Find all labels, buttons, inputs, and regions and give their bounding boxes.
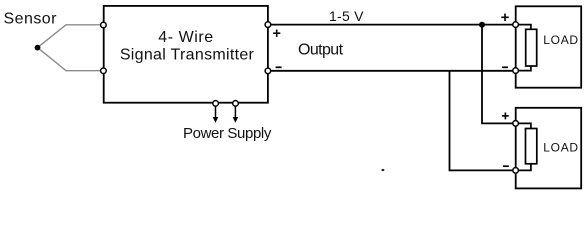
load 2 box (516, 108, 582, 189)
terminal load1 minus (513, 68, 519, 74)
wire minus branch to load 2 (450, 71, 513, 171)
junction dot on plus bus (479, 22, 485, 28)
terminal load1 plus (513, 22, 519, 28)
wire plus branch to load 2 (482, 25, 513, 124)
minus sign at U1 output (276, 66, 282, 68)
resistor load 2 (526, 129, 537, 164)
terminal output minus (U1 right) (265, 68, 271, 74)
svg-text:LOAD: LOAD (543, 33, 578, 47)
svg-text:Output: Output (298, 41, 344, 58)
power supply arrow a (213, 106, 219, 122)
resistor load 1 (526, 29, 537, 66)
svg-text:Sensor: Sensor (4, 10, 58, 27)
minus sign load2 (503, 165, 509, 167)
terminal power a (U1 bottom) (213, 101, 219, 107)
svg-text:Signal Transmitter: Signal Transmitter (120, 47, 255, 64)
plus sign at U1 output (273, 30, 280, 37)
svg-text:Power Supply: Power Supply (183, 125, 272, 142)
sensor junction dot (35, 45, 41, 51)
plus sign load2 (502, 113, 509, 120)
terminal load2 plus (513, 121, 519, 127)
plus sign load1 (501, 14, 508, 21)
wire load2 plus to resistor (519, 123, 531, 128)
stray dot mark (381, 169, 384, 171)
wire load1 plus to resistor (519, 25, 531, 30)
transmitter U1 4-Wire Signal Transmitter (104, 6, 268, 103)
svg-text:LOAD: LOAD (543, 141, 578, 155)
svg-text:4- Wire: 4- Wire (158, 29, 213, 46)
power supply arrow b (233, 106, 239, 122)
wire output minus bus (271, 70, 513, 72)
terminal output plus (U1 right) (265, 22, 271, 28)
terminal input lower (U1 left) (101, 68, 107, 74)
wire load1 minus to resistor (519, 66, 531, 71)
wire output plus bus (271, 24, 513, 26)
wire sensor upper lead (38, 25, 101, 48)
terminal input upper (U1 left) (101, 22, 107, 28)
wire load2 minus to resistor (519, 164, 531, 171)
minus sign load1 (502, 66, 508, 68)
terminal power b (U1 bottom) (233, 101, 239, 107)
terminal load2 minus (513, 168, 519, 174)
svg-text:1-5 V: 1-5 V (329, 8, 364, 24)
wire sensor lower lead (38, 48, 101, 71)
load 1 box (516, 6, 582, 87)
